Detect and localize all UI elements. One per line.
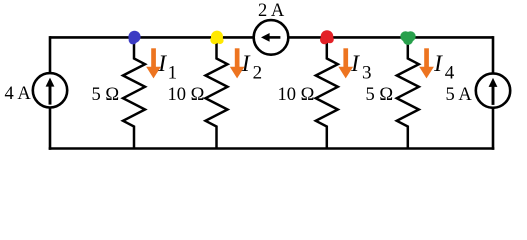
current source 5A (right)	[476, 73, 510, 107]
resistor R1 5ohm	[123, 38, 145, 149]
node C (red dot)	[320, 30, 334, 44]
node A (blue dot)	[128, 31, 140, 45]
node D (green dot)	[400, 31, 415, 45]
wire left vertical upper	[49, 36, 52, 73]
resistor R2 10ohm	[206, 38, 228, 149]
svg-text:5 Ω: 5 Ω	[366, 85, 394, 105]
node B (yellow dot)	[210, 31, 223, 45]
svg-text:I: I	[350, 51, 360, 77]
svg-text:I: I	[241, 51, 251, 77]
wire left vertical lower	[49, 108, 52, 150]
svg-text:I: I	[157, 51, 167, 77]
svg-text:10 Ω: 10 Ω	[278, 85, 315, 105]
label I1	[157, 51, 177, 84]
resistor R3 10ohm	[316, 38, 338, 149]
wire top-right segment	[288, 36, 493, 39]
label I4	[433, 51, 455, 84]
current arrow I2 (orange)	[230, 48, 245, 78]
current arrow I4 (orange)	[419, 48, 434, 78]
current arrow I3 (orange)	[338, 48, 353, 78]
svg-text:2 A: 2 A	[258, 1, 285, 21]
svg-text:3: 3	[362, 63, 372, 84]
svg-text:I: I	[433, 51, 443, 77]
wire bottom	[49, 147, 495, 150]
svg-text:5 Ω: 5 Ω	[92, 85, 120, 105]
wire right vertical lower	[492, 108, 495, 150]
current source I=4A (left)	[33, 73, 67, 107]
svg-text:2: 2	[253, 63, 263, 84]
wire right vertical upper	[492, 36, 495, 73]
label I2	[241, 51, 262, 84]
current source 2A (top)	[254, 20, 289, 55]
wire top-left segment	[50, 36, 254, 39]
svg-text:4 A: 4 A	[5, 84, 32, 104]
svg-text:1: 1	[168, 63, 178, 84]
current arrow I1 (orange)	[146, 48, 161, 78]
svg-text:4: 4	[445, 63, 455, 84]
label I3	[350, 51, 371, 84]
resistor R4 5ohm	[397, 38, 419, 149]
svg-text:5 A: 5 A	[446, 85, 473, 105]
svg-text:10 Ω: 10 Ω	[168, 85, 205, 105]
